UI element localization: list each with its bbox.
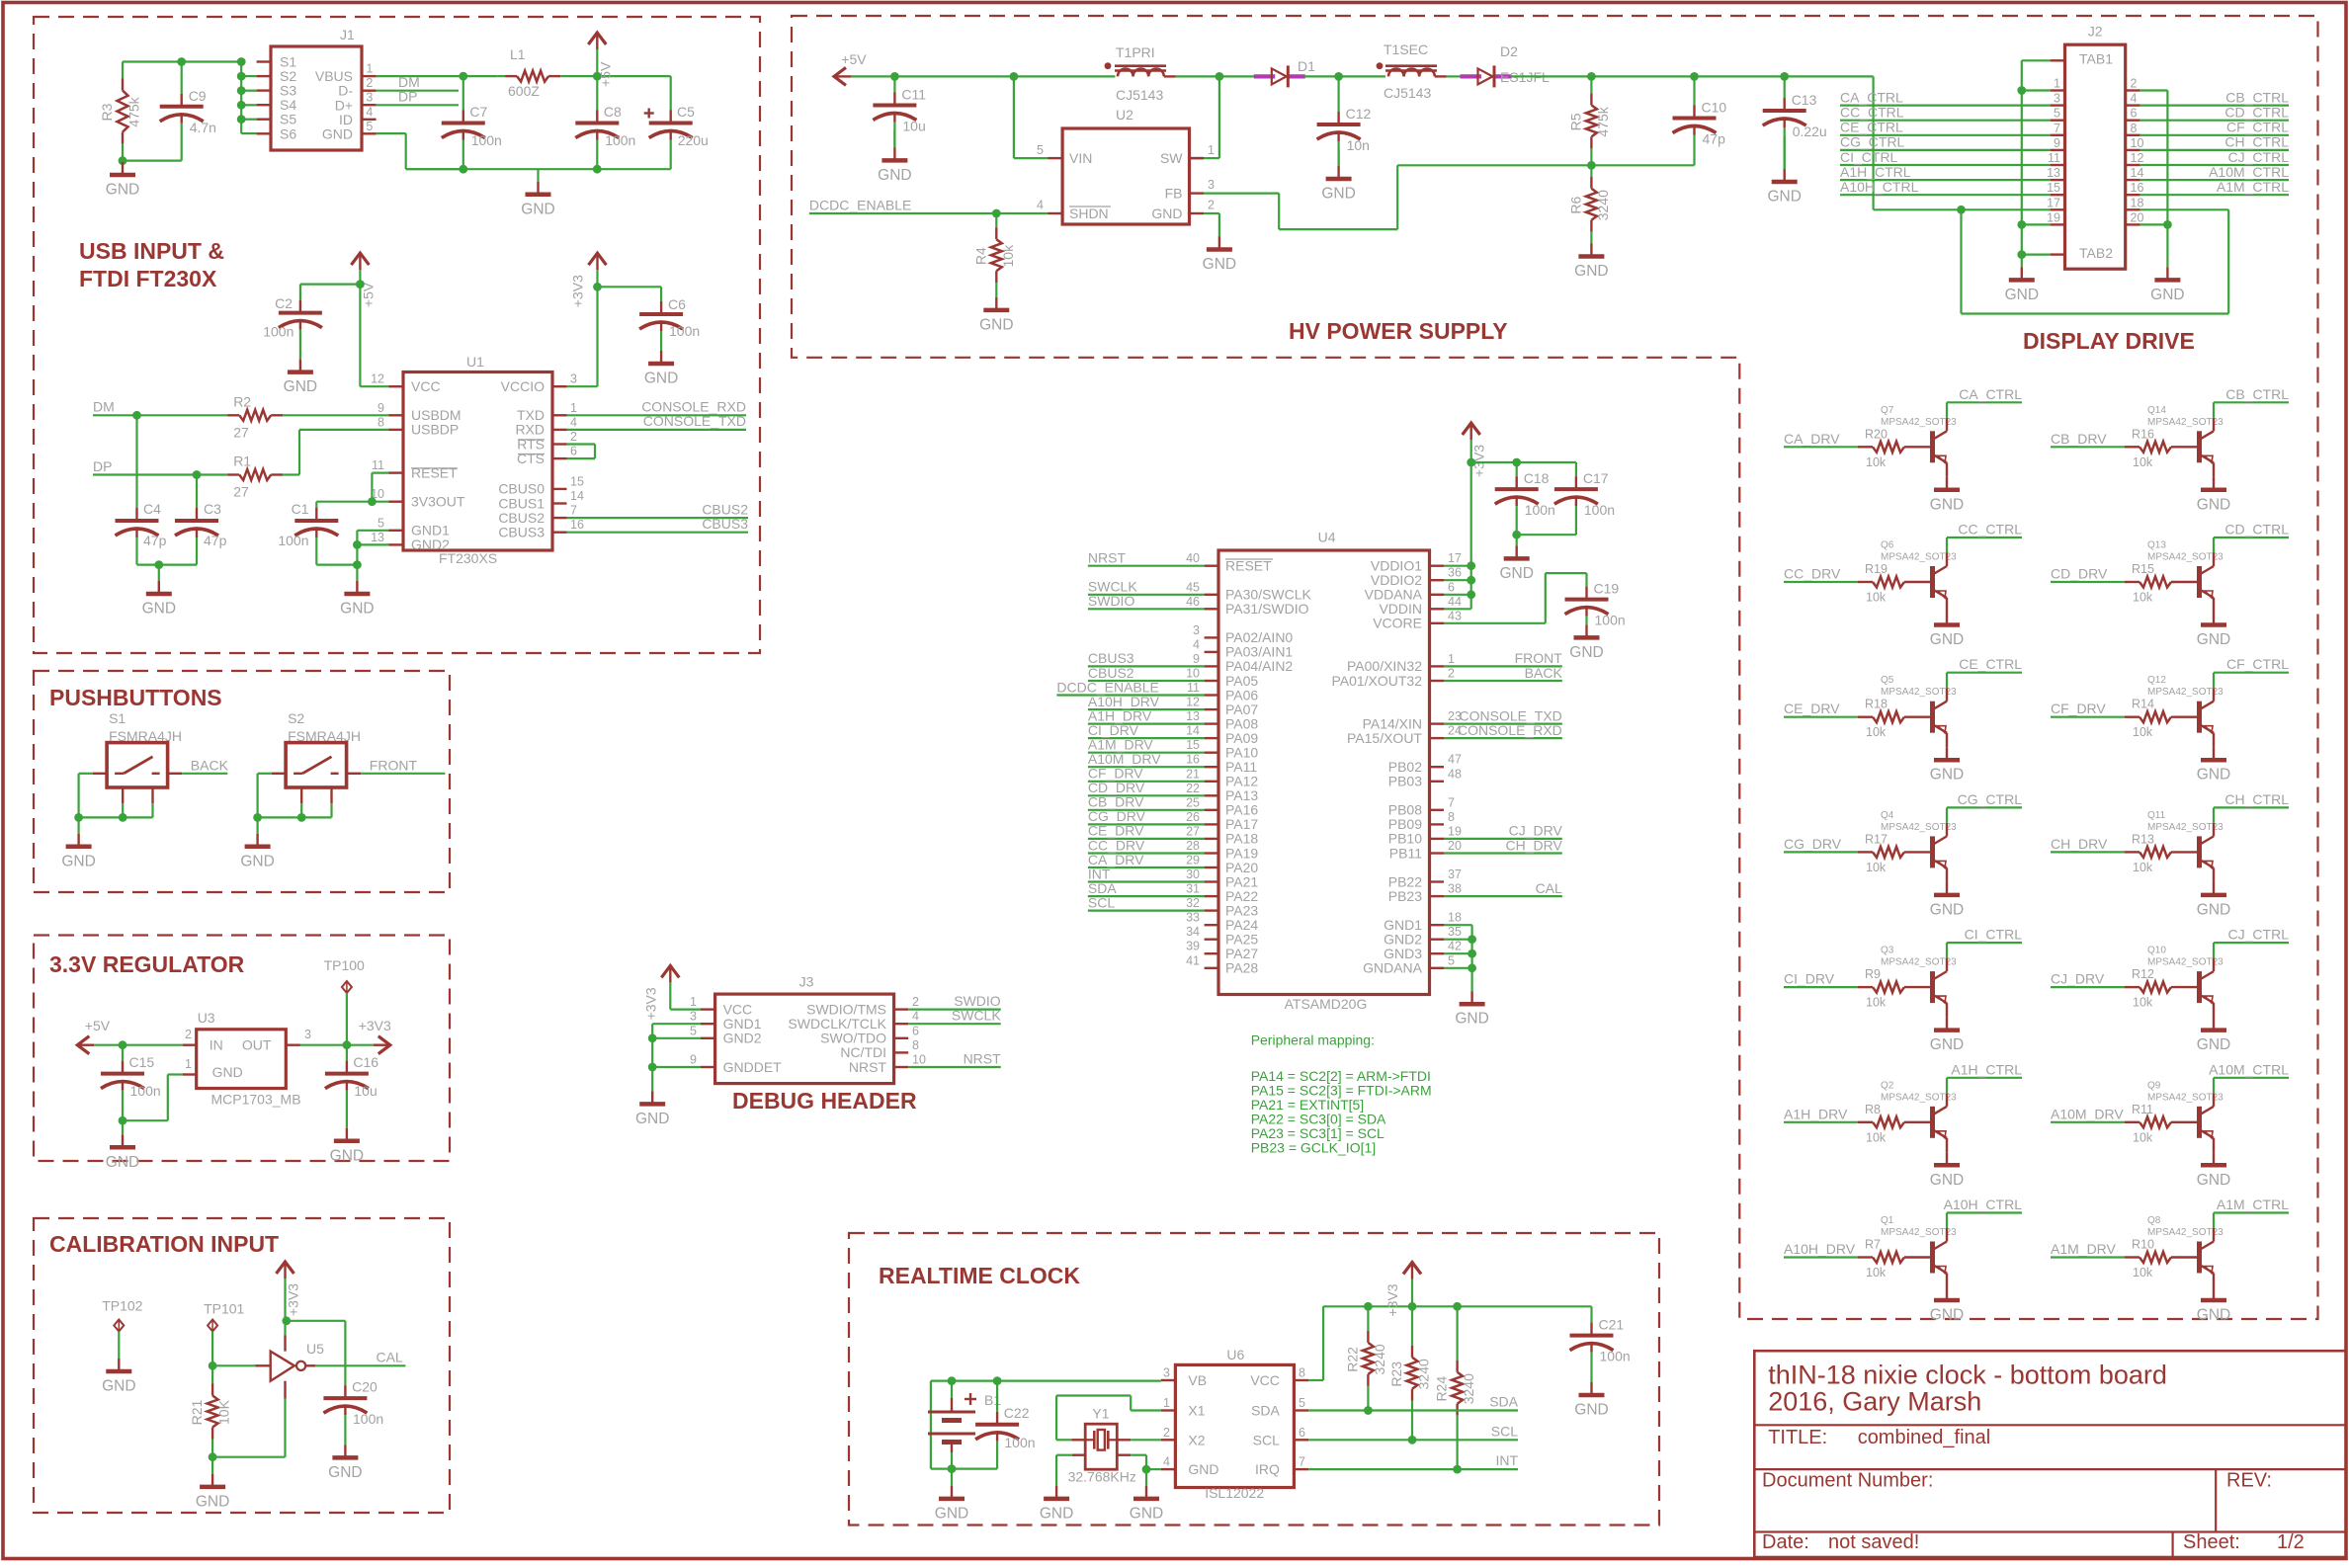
svg-text:IRQ: IRQ (1255, 1461, 1280, 1477)
svg-text:D2: D2 (1500, 43, 1518, 59)
resistor R23 (1411, 1306, 1413, 1346)
transistor Q4 MPSA42_SOT23 (1930, 836, 1935, 867)
svg-text:SDA: SDA (1489, 1394, 1518, 1410)
U4 right pins (1430, 565, 1445, 567)
svg-text:PB10: PB10 (1388, 831, 1422, 847)
wire collector to A1H_CTRL (1946, 1093, 1948, 1107)
svg-text:20: 20 (1448, 839, 1462, 853)
svg-text:CH_DRV: CH_DRV (1505, 837, 1562, 853)
svg-text:CI_DRV: CI_DRV (1088, 722, 1139, 738)
svg-text:PA28: PA28 (1225, 960, 1258, 976)
resistor R8 10k (1858, 1121, 1873, 1123)
svg-text:TAB1: TAB1 (2079, 51, 2113, 67)
J2 left net labels (1840, 104, 2051, 106)
capacitor C15 (122, 1045, 124, 1061)
svg-text:48: 48 (1448, 767, 1462, 781)
svg-text:Q4: Q4 (1881, 810, 1894, 821)
svg-text:7: 7 (1448, 795, 1455, 809)
svg-text:R5: R5 (1567, 113, 1583, 130)
svg-text:GND: GND (644, 371, 678, 387)
svg-text:17: 17 (1448, 551, 1462, 565)
transformer T1SEC (1388, 69, 1404, 77)
svg-text:TXD: TXD (517, 407, 545, 423)
S1 left pin wire (93, 773, 107, 775)
svg-text:100n: 100n (471, 132, 502, 148)
svg-text:GND: GND (106, 182, 139, 199)
svg-text:CJ5143: CJ5143 (1116, 87, 1163, 103)
wire FB node horizontal (1397, 164, 1694, 166)
svg-text:3: 3 (2054, 92, 2060, 106)
ground GND under U2 (1218, 235, 1220, 238)
svg-text:Q7: Q7 (1881, 405, 1894, 416)
svg-text:U5: U5 (306, 1341, 324, 1357)
wire X1 loop (1071, 1439, 1085, 1441)
svg-text:27: 27 (233, 424, 249, 440)
net SDA wire (1308, 1409, 1518, 1411)
svg-text:PA04/AIN2: PA04/AIN2 (1225, 658, 1293, 674)
power +5V arrow above C8 (588, 33, 606, 44)
svg-text:22: 22 (1186, 782, 1200, 795)
svg-text:PB11: PB11 (1389, 845, 1422, 861)
svg-text:SHDN: SHDN (1069, 206, 1109, 221)
ground GND under J3 bus (651, 1091, 653, 1104)
net SCL wire (1308, 1439, 1518, 1441)
wire C4/C3 GND rail (137, 563, 198, 565)
wire C18 C17 bottoms (1517, 534, 1576, 536)
svg-text:GND: GND (328, 1464, 362, 1481)
svg-text:D+: D+ (335, 97, 353, 113)
svg-text:MPSA42_SOT23: MPSA42_SOT23 (1881, 822, 1957, 833)
svg-text:Q10: Q10 (2147, 946, 2166, 956)
svg-text:VCCIO: VCCIO (501, 378, 545, 394)
svg-text:SDA: SDA (1251, 1403, 1280, 1419)
svg-text:C15: C15 (129, 1054, 155, 1070)
resistor R13 10k (2125, 851, 2139, 853)
svg-text:GND: GND (2197, 1172, 2230, 1189)
svg-text:TP100: TP100 (324, 957, 365, 973)
svg-text:J3: J3 (799, 973, 814, 989)
svg-text:10: 10 (912, 1053, 926, 1067)
wire emitter to GND (1946, 1003, 1948, 1018)
wire emitter to GND (1946, 733, 1948, 748)
transistor Q2 MPSA42_SOT23 (1930, 1107, 1935, 1138)
capacitor C20 (344, 1385, 346, 1398)
svg-text:GND: GND (1188, 1461, 1218, 1477)
svg-text:R19: R19 (1865, 562, 1888, 576)
svg-text:VB: VB (1188, 1372, 1207, 1388)
wire R1 to USBDP pin (286, 473, 299, 475)
svg-text:PB03: PB03 (1388, 774, 1422, 789)
svg-text:2: 2 (1163, 1426, 1170, 1440)
svg-text:100n: 100n (1600, 1349, 1631, 1364)
svg-text:8: 8 (1299, 1366, 1305, 1380)
svg-text:J1: J1 (340, 27, 355, 42)
svg-text:10u: 10u (354, 1083, 377, 1099)
svg-text:VCC: VCC (723, 1001, 753, 1017)
svg-text:45: 45 (1186, 580, 1200, 594)
svg-text:12: 12 (1186, 696, 1200, 709)
net CONSOLE_TXD (567, 429, 747, 431)
svg-text:GND: GND (1574, 263, 1608, 280)
svg-text:MPSA42_SOT23: MPSA42_SOT23 (2147, 822, 2223, 833)
net CF_DRV wire to U4 (1088, 781, 1205, 783)
svg-text:16: 16 (570, 518, 584, 532)
power +3V3 arrow RTC (1403, 1263, 1421, 1275)
svg-text:16: 16 (2131, 181, 2144, 195)
capacitor C1 (315, 508, 317, 521)
svg-text:GND: GND (212, 1064, 243, 1080)
svg-text:A1M_CTRL: A1M_CTRL (2217, 1197, 2289, 1212)
svg-text:47p: 47p (1703, 131, 1726, 147)
net A1M_DRV wire to U4 (1088, 752, 1205, 754)
svg-text:A1M_CTRL: A1M_CTRL (2217, 179, 2289, 195)
svg-text:GND: GND (340, 601, 374, 618)
svg-text:4: 4 (2131, 92, 2138, 106)
net SWDIO wire to U4 (1088, 608, 1205, 610)
svg-text:10k: 10k (2133, 1266, 2153, 1279)
net CJ_DRV wire from U4 (1444, 838, 1562, 840)
wire L1 to +5V node to C5 (568, 75, 671, 77)
net CBUS3 (567, 532, 749, 534)
ground GND under C18 (1516, 535, 1518, 545)
svg-text:MPSA42_SOT23: MPSA42_SOT23 (2147, 957, 2223, 968)
svg-text:100n: 100n (130, 1083, 161, 1099)
wire collector to CB_CTRL (2213, 418, 2215, 432)
svg-text:5: 5 (1037, 143, 1044, 157)
wire U3 GND pin1 loop (168, 1073, 183, 1075)
svg-text:10K: 10K (216, 1399, 232, 1425)
ground GND under TAB2 (2021, 255, 2023, 268)
svg-text:CG_CTRL: CG_CTRL (1840, 134, 1905, 150)
calibration input dashed box (34, 1218, 450, 1513)
svg-text:CD_CTRL: CD_CTRL (2224, 105, 2289, 121)
svg-text:9: 9 (378, 401, 384, 415)
net CA_DRV wire to U4 (1088, 867, 1205, 868)
wire collector to CG_CTRL (1946, 823, 1948, 837)
svg-text:2: 2 (570, 430, 577, 444)
svg-text:C16: C16 (353, 1054, 378, 1070)
wire +5V to T1PRI (851, 75, 1115, 77)
svg-text:ATSAMD20G: ATSAMD20G (1285, 996, 1368, 1012)
svg-text:USB INPUT &: USB INPUT & (79, 238, 224, 264)
svg-text:27: 27 (233, 484, 249, 500)
svg-text:PA09: PA09 (1225, 730, 1258, 746)
svg-text:CH_CTRL: CH_CTRL (2224, 791, 2289, 807)
svg-text:combined_final: combined_final (1858, 1427, 1991, 1448)
svg-text:27: 27 (1186, 824, 1200, 838)
svg-text:15: 15 (1186, 738, 1200, 752)
net NRST wire to U4 (1088, 565, 1205, 567)
svg-text:41: 41 (1186, 953, 1200, 967)
ground GND Q9 (2213, 1151, 2215, 1153)
svg-text:CALIBRATION INPUT: CALIBRATION INPUT (49, 1231, 279, 1257)
svg-text:Q5: Q5 (1881, 675, 1894, 686)
svg-text:5: 5 (366, 120, 373, 133)
svg-text:16: 16 (1186, 753, 1200, 767)
svg-text:GND: GND (2005, 287, 2039, 303)
HV power supply / display drive dashed outline (792, 16, 2318, 1319)
svg-text:GND: GND (1930, 767, 1964, 784)
svg-text:NRST: NRST (964, 1051, 1002, 1067)
svg-text:CJ_CTRL: CJ_CTRL (2228, 927, 2290, 943)
svg-text:CAL: CAL (1536, 880, 1562, 896)
net CONSOLE_RXD wire from U4 (1444, 737, 1562, 739)
wire emitter to GND (1946, 598, 1948, 613)
svg-text:C6: C6 (668, 296, 686, 312)
svg-text:CE_CTRL: CE_CTRL (1959, 656, 2022, 672)
net CD_DRV wire to U4 (1088, 794, 1205, 796)
svg-text:PA31/SWDIO: PA31/SWDIO (1225, 601, 1309, 617)
svg-text:CBUS3: CBUS3 (498, 525, 545, 540)
Y1 case pins to GND (1072, 1453, 1085, 1455)
svg-text:REV:: REV: (2226, 1470, 2272, 1492)
svg-text:PA15/XOUT: PA15/XOUT (1347, 730, 1422, 746)
svg-text:GND: GND (1151, 206, 1182, 221)
ground GND under U1 (356, 565, 358, 581)
svg-text:4: 4 (1037, 199, 1044, 212)
U6 pin stubs and numbers (1161, 1379, 1176, 1381)
svg-text:Q6: Q6 (1881, 540, 1894, 551)
net FRONT wire (347, 773, 362, 775)
resistor R19 10k (1858, 581, 1873, 583)
svg-text:GND: GND (1930, 1036, 1964, 1053)
crystal Y1 32.768KHz (1085, 1424, 1117, 1469)
wire X2 (1117, 1439, 1131, 1441)
net CI_DRV wire to U4 (1088, 737, 1205, 739)
title block frame (1754, 1351, 2346, 1557)
svg-text:FRONT: FRONT (1515, 650, 1563, 666)
wire D1 to T1SEC (1304, 75, 1385, 77)
svg-text:13: 13 (2047, 166, 2060, 180)
svg-text:1: 1 (690, 995, 697, 1009)
resistor R12 10k (2125, 986, 2139, 988)
svg-text:GND2: GND2 (723, 1031, 762, 1046)
wire OUT to +3V3 (300, 1044, 374, 1046)
svg-text:Date:: Date: (1762, 1531, 1809, 1553)
svg-text:GNDDET: GNDDET (723, 1059, 783, 1075)
svg-text:31: 31 (1186, 882, 1200, 896)
svg-text:3240: 3240 (1416, 1359, 1432, 1389)
wire emitter to GND (2213, 867, 2215, 882)
svg-text:5: 5 (2054, 107, 2060, 121)
svg-text:C11: C11 (901, 87, 926, 103)
svg-text:10k: 10k (2133, 1130, 2153, 1144)
svg-text:GND1: GND1 (411, 523, 450, 538)
net CH_DRV wire from U4 (1444, 852, 1562, 854)
svg-text:CE_CTRL: CE_CTRL (1840, 120, 1903, 135)
svg-text:PB02: PB02 (1388, 759, 1422, 775)
net CG_DRV wire to U4 (1088, 823, 1205, 825)
svg-text:CBUS3: CBUS3 (1088, 650, 1134, 666)
wire U4 GND bus (1470, 925, 1472, 991)
svg-text:1: 1 (1448, 652, 1455, 666)
svg-text:13: 13 (1186, 709, 1200, 723)
svg-text:GND3: GND3 (1384, 946, 1422, 961)
wire R21 bottom rail to inverter gnd (209, 1452, 217, 1461)
transistor Q11 MPSA42_SOT23 (2197, 836, 2202, 867)
svg-text:CI_CTRL: CI_CTRL (1965, 927, 2023, 943)
svg-text:PUSHBUTTONS: PUSHBUTTONS (49, 685, 222, 710)
capacitor C8 (596, 76, 598, 110)
svg-text:S5: S5 (280, 112, 296, 127)
wire emitter to GND (1946, 867, 1948, 882)
svg-text:NRST: NRST (1088, 550, 1127, 566)
svg-text:CI_DRV: CI_DRV (1784, 971, 1835, 987)
net A10H_DRV wire to U4 (1088, 708, 1205, 710)
svg-text:A10H_CTRL: A10H_CTRL (1944, 1197, 2023, 1212)
net CBUS2 (567, 517, 749, 519)
svg-text:DEBUG HEADER: DEBUG HEADER (732, 1088, 917, 1114)
svg-text:+3V3: +3V3 (1384, 1283, 1400, 1316)
wire collector to CH_CTRL (2213, 823, 2215, 837)
svg-text:PA23: PA23 (1225, 902, 1258, 918)
svg-text:SCL: SCL (1253, 1432, 1280, 1447)
svg-text:MPSA42_SOT23: MPSA42_SOT23 (1881, 957, 1957, 968)
capacitor C6 (660, 301, 662, 314)
svg-text:R1: R1 (233, 454, 251, 469)
svg-text:not saved!: not saved! (1828, 1531, 1919, 1553)
svg-text:15: 15 (570, 474, 584, 488)
ground GND under C13 (1784, 136, 1786, 169)
net CC_DRV wire to U4 (1088, 852, 1205, 854)
transistor Q3 MPSA42_SOT23 (1930, 971, 1935, 1003)
IC U4 ATSAMD20G box (1218, 550, 1430, 995)
svg-text:10k: 10k (1866, 996, 1887, 1010)
svg-text:10k: 10k (1866, 725, 1887, 739)
svg-text:Q1: Q1 (1881, 1215, 1894, 1226)
svg-text:GND: GND (2197, 631, 2230, 648)
svg-text:RESET: RESET (1225, 558, 1272, 574)
svg-text:475k: 475k (126, 96, 142, 126)
power +5V arrow left (77, 1036, 89, 1054)
wire +3V3 bus to VDD pins (1467, 458, 1475, 467)
svg-text:FB: FB (1165, 186, 1183, 202)
svg-text:2016, Gary Marsh: 2016, Gary Marsh (1768, 1387, 1981, 1417)
svg-text:10: 10 (1186, 667, 1200, 681)
svg-text:SW: SW (1160, 150, 1183, 166)
svg-text:R24: R24 (1434, 1376, 1450, 1402)
svg-text:RTS: RTS (517, 436, 545, 452)
svg-text:GND: GND (521, 201, 554, 217)
svg-text:47p: 47p (204, 533, 227, 548)
ground GND S2 (257, 817, 259, 833)
svg-text:18: 18 (1448, 911, 1462, 925)
ground GND Q10 (2213, 1016, 2215, 1018)
capacitor C16 (346, 1045, 348, 1061)
resistor R17 10k (1858, 851, 1873, 853)
svg-text:GND: GND (61, 853, 95, 869)
svg-text:C13: C13 (1792, 92, 1817, 108)
svg-text:PA18: PA18 (1225, 831, 1258, 847)
svg-text:L1: L1 (510, 46, 526, 62)
svg-text:GND: GND (1499, 565, 1533, 582)
ground GND Q4 (1946, 881, 1948, 883)
ground GND below R3 (122, 161, 124, 162)
wire VCORE to C19 (1444, 622, 1546, 624)
svg-text:GND: GND (1040, 1505, 1073, 1522)
svg-text:3240: 3240 (1372, 1344, 1387, 1374)
svg-text:A1H_CTRL: A1H_CTRL (1951, 1061, 2022, 1077)
transistor Q10 MPSA42_SOT23 (2197, 971, 2202, 1003)
svg-text:7: 7 (1299, 1455, 1305, 1469)
svg-text:MPSA42_SOT23: MPSA42_SOT23 (2147, 417, 2223, 428)
svg-text:C5: C5 (677, 104, 695, 120)
wire HV to J2 pin17 drop (1872, 76, 1874, 209)
svg-text:1: 1 (366, 62, 373, 76)
wire RESET loop to 3V3OUT (372, 472, 388, 474)
wire VBUS to L1 and C7 (377, 75, 498, 77)
wire pin2/pin20 bus right (2140, 89, 2168, 91)
capacitor C18 (1516, 462, 1518, 476)
svg-text:1/2: 1/2 (2277, 1531, 2305, 1553)
svg-text:5: 5 (690, 1024, 697, 1037)
resistor R16 10k (2125, 446, 2139, 448)
svg-text:CONSOLE_TXD: CONSOLE_TXD (643, 413, 746, 429)
svg-text:6: 6 (2131, 107, 2138, 121)
svg-text:26: 26 (1186, 810, 1200, 824)
svg-text:A1H_CTRL: A1H_CTRL (1840, 164, 1911, 180)
svg-text:TITLE:: TITLE: (1768, 1427, 1827, 1448)
wire +5V node to C2 and U1 VCC (300, 284, 361, 286)
capacitor C13 (1784, 76, 1786, 98)
svg-text:R17: R17 (1865, 832, 1888, 846)
svg-text:PA00/XIN32: PA00/XIN32 (1347, 658, 1422, 674)
svg-text:5: 5 (1299, 1396, 1305, 1410)
wire +3V3 node to inverter VCC and C20 (282, 1316, 291, 1325)
ground GND Q11 (2213, 881, 2215, 883)
S2 bottom pins (300, 787, 302, 803)
net SCL wire to U4 (1088, 909, 1205, 911)
inverter U5 (271, 1352, 294, 1381)
wire emitter to GND (2213, 598, 2215, 613)
svg-text:DM: DM (398, 74, 420, 90)
svg-text:GND: GND (1930, 1172, 1964, 1189)
svg-text:3.3V REGULATOR: 3.3V REGULATOR (49, 951, 245, 977)
svg-text:TP101: TP101 (204, 1300, 244, 1316)
svg-text:GND: GND (322, 126, 353, 142)
wire collector to A10M_CTRL (2213, 1093, 2215, 1107)
svg-text:8: 8 (912, 1038, 919, 1052)
svg-text:GND: GND (1130, 1505, 1163, 1522)
svg-text:R21: R21 (189, 1399, 205, 1425)
wire R3/C9 bottom to GND (123, 160, 182, 162)
svg-text:USBDP: USBDP (411, 422, 459, 438)
realtime clock dashed box (849, 1233, 1659, 1526)
svg-text:C7: C7 (469, 104, 487, 120)
svg-text:GND1: GND1 (723, 1016, 762, 1032)
wire VIN riser (1013, 76, 1015, 158)
svg-text:CJ_DRV: CJ_DRV (2051, 971, 2105, 987)
svg-text:5: 5 (1448, 953, 1455, 967)
svg-text:10n: 10n (1347, 137, 1370, 153)
svg-text:BACK: BACK (1525, 665, 1563, 681)
wire U2 GND pin to ground (1204, 212, 1219, 214)
J2 right pin stubs and numbers (2126, 89, 2140, 91)
resistor R7 10k (1858, 1256, 1873, 1258)
svg-text:SWDIO: SWDIO (954, 993, 1001, 1009)
svg-text:11: 11 (2048, 151, 2060, 165)
svg-text:D-: D- (338, 83, 353, 99)
wire TP101 to inverter input (209, 1362, 217, 1370)
net INT wire to U4 (1088, 880, 1205, 882)
svg-text:Sheet:: Sheet: (2183, 1531, 2240, 1553)
IC U6 ISL12022 box (1175, 1364, 1294, 1487)
svg-text:3240: 3240 (1461, 1373, 1476, 1404)
svg-text:ID: ID (339, 112, 353, 127)
svg-text:100n: 100n (278, 533, 308, 548)
svg-text:GND: GND (330, 1147, 364, 1164)
svg-text:Q12: Q12 (2147, 675, 2166, 686)
